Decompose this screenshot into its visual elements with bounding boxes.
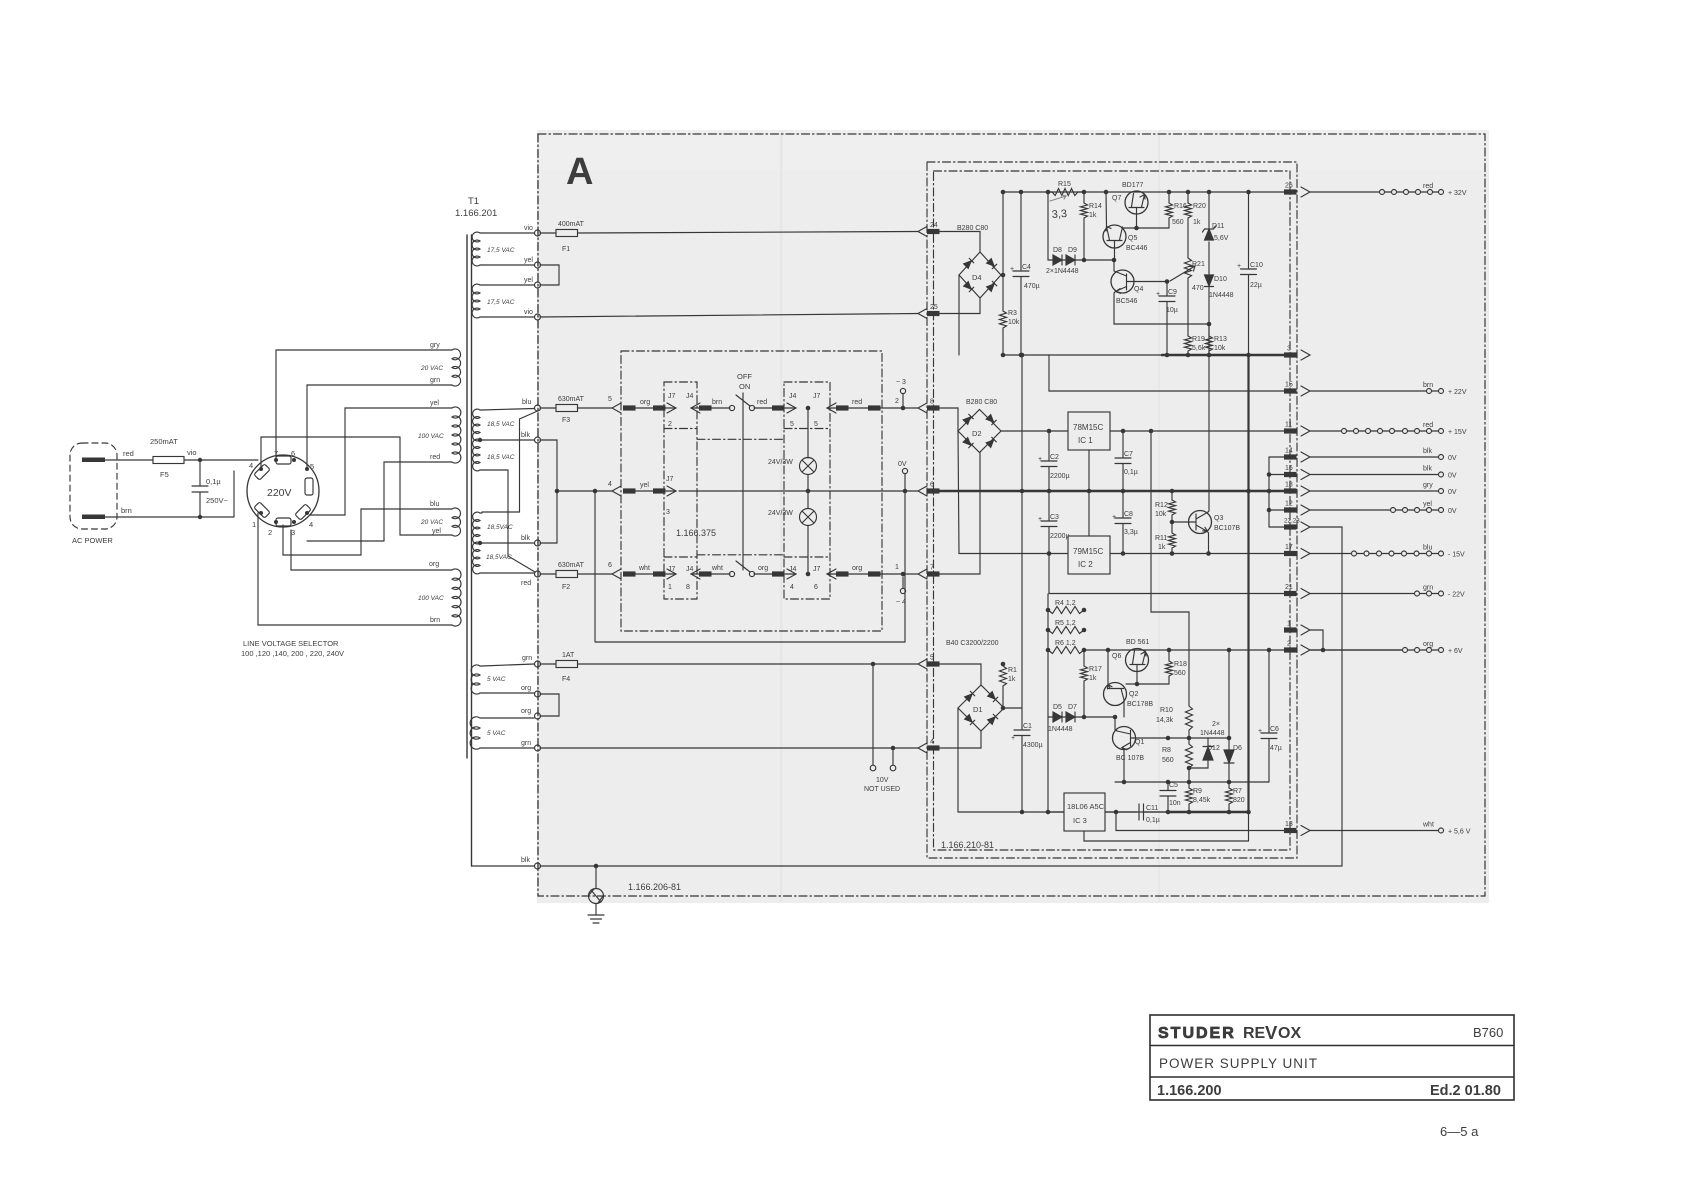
- board pin 6 left: [918, 486, 927, 496]
- resistor R10 14.3k: [1186, 706, 1193, 744]
- svg-text:IC 1: IC 1: [1078, 436, 1093, 445]
- wire D2 minus to IC2 row: [958, 431, 1068, 554]
- wire brn AC: [105, 516, 234, 518]
- wire blk bottom run: [540, 865, 1342, 867]
- svg-text:5 VAC: 5 VAC: [487, 730, 506, 737]
- svg-text:R11: R11: [1155, 535, 1167, 542]
- svg-text:red: red: [521, 580, 531, 587]
- +6V unreg rail: [1084, 649, 1284, 651]
- svg-text:J7: J7: [813, 566, 821, 573]
- output line + 6V org: [1310, 649, 1403, 651]
- svg-text:1k: 1k: [1089, 675, 1097, 682]
- T1 primary winding 20VAC gry-grn: [452, 349, 461, 386]
- fuse F5 250mAT: [153, 457, 184, 464]
- svg-text:Q4: Q4: [1134, 286, 1143, 293]
- svg-text:OFF: OFF: [737, 372, 752, 381]
- wire -22V unreg to pin 21: [1049, 554, 1284, 594]
- output line + 15V red: [1310, 430, 1342, 432]
- svg-text:26: 26: [1285, 183, 1293, 190]
- terminal ~4: [901, 572, 906, 577]
- power switch S2 upper pole OFF/ON: [729, 405, 734, 410]
- svg-text:R5 1,2: R5 1,2: [1055, 620, 1076, 627]
- wire return below box: [595, 491, 905, 642]
- svg-text:R1: R1: [1008, 667, 1017, 674]
- svg-text:J7: J7: [666, 476, 674, 483]
- wire IC1 out +15V: [1110, 430, 1284, 432]
- svg-text:+: +: [1112, 514, 1116, 521]
- svg-text:10k: 10k: [1008, 319, 1020, 326]
- svg-text:R18: R18: [1174, 661, 1187, 668]
- transistor Q4 BC546: [1111, 270, 1134, 293]
- T1 core: [467, 235, 472, 866]
- svg-text:5,6k: 5,6k: [1192, 345, 1206, 352]
- svg-text:1: 1: [668, 584, 672, 591]
- board box outer 1.166.210-81: [927, 162, 1297, 858]
- svg-text:1.166.201: 1.166.201: [455, 208, 497, 219]
- wire org tap loop: [291, 530, 452, 570]
- svg-text:10n: 10n: [1169, 800, 1181, 807]
- svg-text:R13: R13: [1214, 336, 1227, 343]
- svg-text:C7: C7: [1124, 451, 1133, 458]
- svg-text:11: 11: [1285, 422, 1292, 429]
- svg-text:18,5 VAC: 18,5 VAC: [487, 454, 515, 461]
- svg-text:ON: ON: [739, 382, 750, 391]
- wire pin8 to D2: [939, 408, 958, 410]
- output line + 22V brn: [1310, 390, 1427, 392]
- svg-text:79M15C: 79M15C: [1073, 547, 1103, 556]
- svg-text:6—5 a: 6—5 a: [1440, 1124, 1479, 1139]
- svg-text:V: V: [1265, 1022, 1278, 1043]
- fold crease left: [780, 131, 783, 902]
- svg-text:24V/3W: 24V/3W: [768, 459, 793, 466]
- svg-text:Q6: Q6: [1112, 653, 1121, 660]
- wire blk to centre row: [540, 440, 557, 491]
- terminal vio2: [535, 314, 541, 320]
- svg-text:18,5 VAC: 18,5 VAC: [487, 421, 515, 428]
- svg-text:IC 2: IC 2: [1078, 560, 1093, 569]
- svg-text:4: 4: [790, 584, 794, 591]
- bottom 0V rail: [958, 811, 1168, 813]
- svg-text:5: 5: [814, 421, 818, 428]
- wire blu tap loop: [283, 509, 452, 555]
- svg-text:~ 4: ~ 4: [896, 599, 906, 606]
- svg-text:vio: vio: [524, 309, 533, 316]
- svg-text:4: 4: [249, 461, 253, 470]
- board pin 1 right: [1284, 627, 1297, 632]
- wire yel tap loop: [310, 408, 452, 515]
- board pin 11 right: [1284, 428, 1297, 433]
- svg-text:grn: grn: [522, 655, 532, 662]
- svg-text:4300µ: 4300µ: [1023, 742, 1043, 749]
- fuse F4 1AT: [540, 663, 556, 665]
- svg-text:2×: 2×: [1212, 721, 1220, 728]
- svg-text:J7: J7: [813, 393, 821, 400]
- svg-text:Q3: Q3: [1214, 515, 1223, 522]
- svg-text:+ 5,6 V: + 5,6 V: [1448, 829, 1471, 836]
- lamp LP2 24V/3W: [807, 475, 809, 509]
- svg-text:C4: C4: [1022, 264, 1031, 271]
- svg-text:Q7: Q7: [1112, 195, 1121, 202]
- resistor R12 10k: [1169, 491, 1176, 533]
- svg-text:2×1N4448: 2×1N4448: [1046, 268, 1079, 275]
- terminal org2: [535, 713, 541, 719]
- board pin 21 right: [1284, 591, 1297, 596]
- zener D11 5.6V: [1208, 192, 1210, 228]
- svg-text:8: 8: [686, 584, 690, 591]
- capacitor C1 4300u: [1014, 491, 1030, 812]
- regulator IC2 79M15C: [1068, 536, 1110, 574]
- svg-text:6: 6: [608, 562, 612, 569]
- svg-text:2200µ: 2200µ: [1050, 473, 1070, 480]
- svg-text:R20: R20: [1193, 203, 1206, 210]
- board pin 18 right: [1284, 488, 1297, 493]
- svg-text:blk: blk: [521, 432, 530, 439]
- svg-text:D1: D1: [973, 705, 983, 714]
- T1 primary winding 100VAC yel-red: [452, 407, 461, 463]
- connector J7-J4 box top left: [667, 403, 676, 413]
- svg-text:red: red: [1423, 422, 1433, 429]
- bridge rectifier D2 B280C80: [958, 410, 1001, 453]
- wire vio1 to pin 24: [578, 232, 919, 234]
- wire D1 plus to C1: [1004, 707, 1022, 709]
- svg-text:1N4448: 1N4448: [1200, 730, 1225, 737]
- board pin 16 right: [1284, 472, 1297, 477]
- svg-text:D11: D11: [1212, 223, 1224, 230]
- wire pin4 to D1 bottom: [939, 731, 981, 748]
- line voltage selector S1 220V: [247, 455, 319, 527]
- svg-text:R7: R7: [1233, 788, 1242, 795]
- board pin 13 right: [1284, 828, 1297, 833]
- svg-text:wht: wht: [1422, 822, 1434, 829]
- svg-text:D2: D2: [972, 429, 982, 438]
- svg-text:3: 3: [1287, 346, 1291, 353]
- svg-text:15: 15: [1285, 382, 1293, 389]
- svg-text:2200µ: 2200µ: [1050, 533, 1070, 540]
- svg-text:0V: 0V: [898, 461, 907, 468]
- svg-text:1N4448: 1N4448: [1209, 292, 1234, 299]
- svg-text:blu: blu: [1423, 545, 1432, 552]
- svg-text:D5: D5: [1053, 704, 1062, 711]
- svg-text:J4: J4: [789, 393, 797, 400]
- output line 0V gry: [1310, 490, 1439, 492]
- svg-text:D8: D8: [1053, 247, 1062, 254]
- capacitor C4 470u: [1013, 192, 1029, 355]
- wire +15V feed to R10: [1151, 431, 1189, 706]
- board pin 5 left: [918, 659, 927, 669]
- svg-text:8: 8: [930, 399, 934, 406]
- resistor R15 3.3: [1048, 189, 1084, 196]
- svg-text:gry: gry: [430, 342, 440, 349]
- regulator IC3 18L06A5C: [1048, 717, 1064, 812]
- svg-text:J4: J4: [686, 566, 694, 573]
- T1 secondary 17.5VAC vio-yel: [472, 232, 482, 266]
- wire grn2 to pin 4: [540, 747, 918, 749]
- switch unit box 1.166.375: [621, 351, 882, 631]
- terminal yel2: [535, 282, 541, 288]
- svg-text:D7: D7: [1068, 704, 1077, 711]
- svg-text:- 15V: - 15V: [1448, 552, 1465, 559]
- transistor Q3 BC107B: [1189, 511, 1212, 534]
- svg-text:+: +: [1258, 728, 1262, 735]
- svg-text:560: 560: [1172, 219, 1184, 226]
- wire D1 minus to bottom rail: [957, 708, 959, 812]
- svg-text:20 VAC: 20 VAC: [420, 365, 443, 372]
- connector column J4/J7 right: [784, 382, 830, 599]
- svg-text:630mAT: 630mAT: [558, 396, 585, 403]
- capacitor C7 0.1u: [1115, 431, 1131, 491]
- diode D10 1N4448: [1208, 242, 1210, 274]
- T1 primary winding 100VAC org-brn: [452, 569, 461, 626]
- svg-text:Ed.2 01.80: Ed.2 01.80: [1430, 1083, 1501, 1099]
- wire yel tap1: [482, 264, 534, 266]
- 10V tap not used: [872, 664, 874, 765]
- svg-text:1k: 1k: [1158, 544, 1166, 551]
- trimmer R21 470: [1185, 258, 1192, 336]
- wire org tap: [482, 692, 534, 694]
- svg-text:630mAT: 630mAT: [558, 562, 585, 569]
- svg-text:D4: D4: [972, 273, 982, 282]
- wire vio: [184, 459, 258, 461]
- svg-text:+: +: [1237, 263, 1241, 270]
- wire red tap loop: [307, 462, 452, 541]
- wire D2 plus to IC1: [1001, 430, 1068, 432]
- svg-text:21: 21: [1285, 584, 1293, 591]
- wire selector pin7 to gry tap: [276, 350, 452, 460]
- output line - 15V blu: [1310, 553, 1352, 555]
- power switch S2 lower pole: [729, 571, 734, 576]
- svg-text:1k: 1k: [1008, 676, 1016, 683]
- transistor Q2 BC178B: [1104, 683, 1127, 706]
- output line 0V blk: [1310, 456, 1439, 458]
- svg-text:org: org: [1423, 641, 1433, 648]
- wire blk2 junction: [540, 491, 557, 543]
- svg-text:grn: grn: [1423, 585, 1433, 592]
- svg-text:R12: R12: [1155, 502, 1168, 509]
- svg-text:78M15C: 78M15C: [1073, 423, 1103, 432]
- svg-text:18,5VAC: 18,5VAC: [487, 524, 513, 531]
- wire org2 tap: [482, 717, 534, 719]
- wire C6 bottom link: [1229, 781, 1269, 783]
- wire core shield to blk: [472, 865, 535, 867]
- T1 secondary 5VAC group 2: [470, 717, 482, 749]
- svg-text:BC446: BC446: [1126, 245, 1148, 252]
- svg-text:C1: C1: [1023, 723, 1032, 730]
- svg-text:17: 17: [1285, 544, 1293, 551]
- svg-text:org: org: [640, 399, 650, 406]
- svg-text:17,5 VAC: 17,5 VAC: [487, 247, 515, 254]
- wire Q2 R18 row: [1126, 683, 1169, 685]
- resistor R16 560: [1166, 192, 1173, 228]
- capacitor C101 0.1u 250V: [192, 460, 208, 517]
- svg-text:J7: J7: [668, 393, 676, 400]
- transistor Q5 BC446: [1103, 225, 1126, 248]
- diode D6: [1228, 650, 1230, 750]
- svg-text:org: org: [521, 708, 531, 715]
- wire vio tap2: [482, 316, 534, 318]
- T1 primary winding 20VAC blu-yel: [452, 508, 461, 536]
- board pin 24 left: [918, 227, 927, 237]
- board pin 12 right: [1284, 507, 1297, 512]
- svg-text:6: 6: [291, 449, 295, 458]
- svg-text:R15: R15: [1058, 181, 1071, 188]
- title block STUDER REVOX: [1150, 1015, 1514, 1100]
- 0V output bracket 14/16/12/22-23: [1268, 457, 1270, 527]
- wire pin24 to D4: [939, 232, 980, 253]
- svg-text:blu: blu: [430, 501, 439, 508]
- wire blu to winding C link: [482, 411, 538, 512]
- terminal org: [535, 691, 541, 697]
- capacitor C11 0.1u: [1105, 804, 1168, 820]
- connector J7-J4 box bottom left: [667, 569, 676, 579]
- AC power plug P1: [70, 443, 117, 529]
- diodes D12 D6 2x1N4448: [1137, 737, 1229, 739]
- svg-text:560: 560: [1162, 757, 1174, 764]
- resistor R14 1k: [1081, 192, 1088, 260]
- wire selector pin5 to grn tap: [307, 385, 452, 469]
- capacitor C2 2200u: [1041, 431, 1057, 491]
- svg-text:wht: wht: [711, 565, 723, 572]
- svg-text:B40 C3200/2200: B40 C3200/2200: [946, 640, 999, 647]
- svg-text:D6: D6: [1233, 745, 1242, 752]
- svg-text:5,6V: 5,6V: [1214, 235, 1229, 242]
- junction dot winding C-D: [478, 541, 482, 545]
- svg-text:red: red: [430, 454, 440, 461]
- terminal blk: [535, 437, 541, 443]
- svg-text:17,5 VAC: 17,5 VAC: [487, 299, 515, 306]
- terminal grn: [535, 661, 541, 667]
- svg-text:R10: R10: [1160, 707, 1173, 714]
- svg-text:D12: D12: [1207, 745, 1220, 752]
- svg-text:C5: C5: [1169, 782, 1178, 789]
- svg-text:100 VAC: 100 VAC: [418, 433, 444, 440]
- diode D12: [1207, 738, 1209, 746]
- svg-text:16: 16: [1285, 465, 1293, 472]
- wire IC1 gnd: [1088, 450, 1090, 491]
- output line - 22V grn: [1310, 593, 1415, 595]
- svg-text:J7: J7: [668, 566, 676, 573]
- transistor Q7 BD177: [1125, 191, 1148, 214]
- svg-text:F3: F3: [562, 417, 570, 424]
- svg-text:R4 1,2: R4 1,2: [1055, 600, 1076, 607]
- +32V rail: [1003, 191, 1284, 193]
- svg-text:vio: vio: [187, 448, 197, 457]
- wire red tap: [482, 572, 534, 574]
- svg-text:grn: grn: [521, 740, 531, 747]
- svg-text:org: org: [852, 565, 862, 572]
- svg-text:0,1µ: 0,1µ: [206, 477, 221, 486]
- svg-text:5 VAC: 5 VAC: [487, 676, 506, 683]
- svg-text:~ 3: ~ 3: [896, 379, 906, 386]
- svg-text:1: 1: [1287, 621, 1291, 628]
- svg-text:100 ,120 ,140, 200 , 220, 240V: 100 ,120 ,140, 200 , 220, 240V: [241, 649, 344, 658]
- svg-text:- 22V: - 22V: [1448, 592, 1465, 599]
- wire blu tap: [482, 409, 534, 411]
- svg-text:gry: gry: [1423, 482, 1433, 489]
- svg-text:RE: RE: [1243, 1025, 1266, 1042]
- svg-text:F1: F1: [562, 246, 570, 253]
- svg-text:3: 3: [666, 509, 670, 516]
- terminal vio1: [535, 230, 541, 236]
- svg-text:R6 1,2: R6 1,2: [1055, 640, 1076, 647]
- wire +22V to pin 15: [1049, 355, 1284, 391]
- svg-text:47µ: 47µ: [1270, 745, 1282, 752]
- svg-text:1.166.210-81: 1.166.210-81: [941, 840, 994, 850]
- svg-text:blk: blk: [1423, 448, 1432, 455]
- transistor Q1 BC107B: [1113, 727, 1136, 750]
- svg-text:R14: R14: [1089, 203, 1102, 210]
- svg-text:R21: R21: [1192, 261, 1205, 268]
- svg-text:AC POWER: AC POWER: [72, 536, 113, 545]
- svg-text:560: 560: [1174, 670, 1186, 677]
- svg-text:22µ: 22µ: [1250, 282, 1262, 289]
- svg-text:T1: T1: [468, 196, 479, 207]
- svg-text:D9: D9: [1068, 247, 1077, 254]
- terminal blk2: [535, 540, 541, 546]
- output line + 32V red: [1310, 191, 1380, 193]
- svg-text:+: +: [1156, 291, 1160, 298]
- svg-text:BC 107B: BC 107B: [1116, 755, 1144, 762]
- svg-text:org: org: [429, 561, 439, 568]
- junction blk-ground: [594, 864, 599, 869]
- svg-text:B280 C80: B280 C80: [966, 399, 997, 406]
- svg-text:400mAT: 400mAT: [558, 221, 585, 228]
- T1 secondary 18.5VAC group C: [473, 512, 482, 544]
- resistor R19 5.6k: [1185, 336, 1192, 355]
- capacitor C5 10n: [1160, 782, 1176, 812]
- T1 secondary 18.5VAC group A: [473, 409, 482, 441]
- resistor R20 1k: [1185, 192, 1192, 258]
- svg-text:6: 6: [814, 584, 818, 591]
- svg-text:B280 C80: B280 C80: [957, 225, 988, 232]
- svg-text:red: red: [757, 399, 767, 406]
- wire grn2 tap: [482, 747, 534, 749]
- output line 0V yel: [1310, 509, 1391, 511]
- output line 0V blk: [1310, 474, 1439, 476]
- svg-text:yel: yel: [640, 482, 649, 489]
- svg-text:red: red: [852, 399, 862, 406]
- svg-text:470µ: 470µ: [1024, 283, 1040, 290]
- resistor R13 10k: [1206, 324, 1213, 355]
- svg-text:1.166.375: 1.166.375: [676, 528, 716, 538]
- svg-text:470: 470: [1192, 285, 1204, 292]
- 0V rail heavy: [939, 490, 1293, 493]
- capacitor C9 10u: [1159, 282, 1175, 356]
- svg-text:10µ: 10µ: [1166, 307, 1178, 314]
- wire red AC: [105, 459, 153, 461]
- svg-text:4: 4: [608, 481, 612, 488]
- board pin 4 left: [918, 743, 927, 753]
- svg-text:1: 1: [895, 564, 899, 571]
- svg-text:+: +: [1010, 266, 1014, 273]
- svg-text:yel: yel: [1423, 501, 1432, 508]
- resistor R3 10k: [1000, 192, 1007, 355]
- terminal blk bottom: [535, 863, 541, 869]
- board pin 22,23 right: [1284, 524, 1297, 529]
- junction dot winding A-B: [478, 438, 482, 442]
- svg-text:BC107B: BC107B: [1214, 525, 1240, 532]
- fold crease right: [1158, 131, 1160, 902]
- svg-text:J4: J4: [686, 393, 694, 400]
- svg-text:wht: wht: [638, 565, 650, 572]
- wire centre row: [557, 490, 612, 492]
- svg-text:R9: R9: [1193, 788, 1202, 795]
- wire IC2 gnd: [1088, 491, 1090, 536]
- svg-text:4: 4: [930, 739, 934, 746]
- svg-text:brn: brn: [430, 617, 440, 624]
- connector J7 box middle: [667, 486, 676, 496]
- svg-text:0,1µ: 0,1µ: [1146, 817, 1160, 824]
- wire pin25 to D4: [939, 298, 980, 314]
